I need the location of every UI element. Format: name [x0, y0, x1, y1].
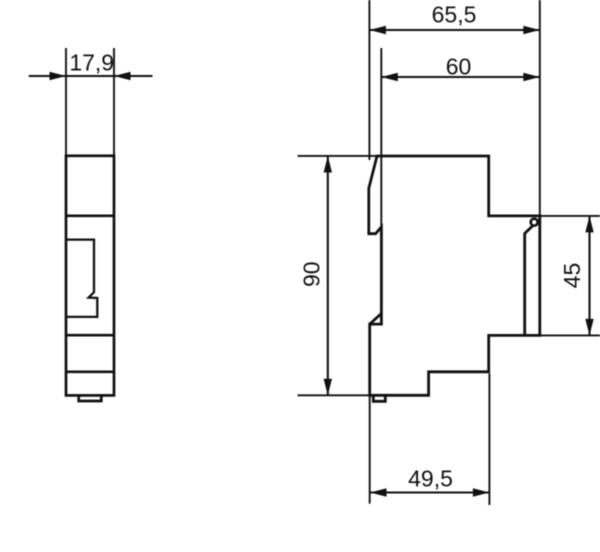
svg-text:60: 60	[446, 53, 472, 79]
svg-text:65,5: 65,5	[432, 2, 477, 28]
svg-text:90: 90	[299, 261, 325, 287]
svg-text:45: 45	[559, 263, 585, 289]
svg-text:17,9: 17,9	[69, 50, 114, 76]
svg-text:49,5: 49,5	[408, 465, 453, 491]
